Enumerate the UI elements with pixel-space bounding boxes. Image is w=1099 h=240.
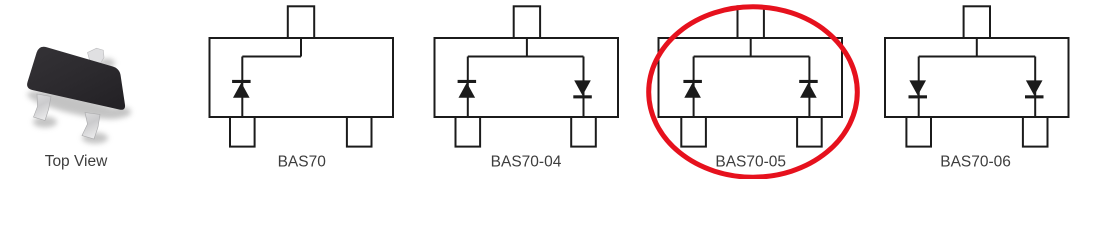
svg-text:BAS70-06: BAS70-06 (940, 153, 1011, 170)
svg-text:BAS70-05: BAS70-05 (715, 153, 786, 170)
svg-text:BAS70-04: BAS70-04 (491, 153, 562, 170)
svg-text:Top View: Top View (45, 153, 108, 170)
svg-text:BAS70: BAS70 (278, 153, 327, 170)
